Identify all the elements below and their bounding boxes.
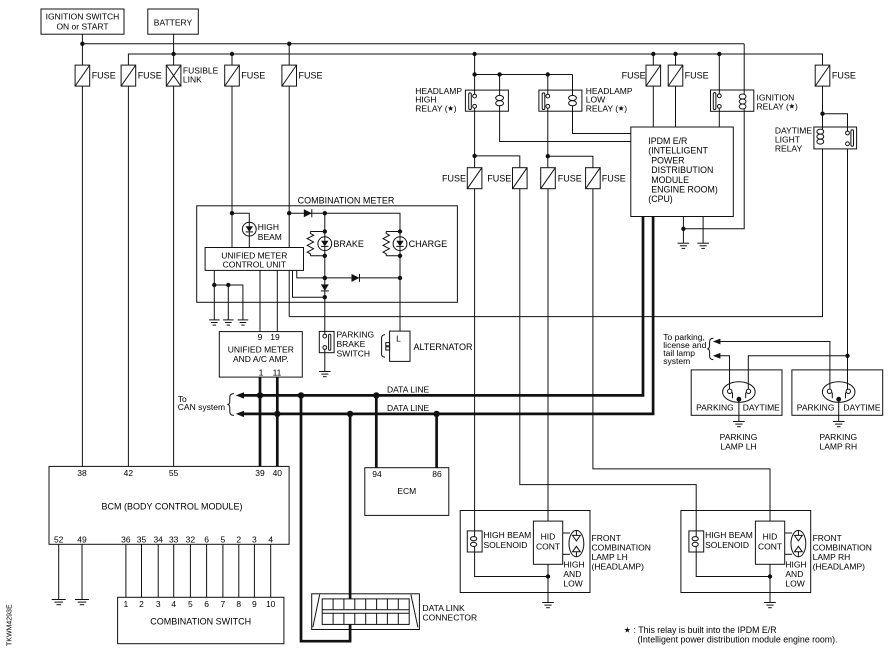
wire parking feed RH (line 1): [713, 339, 830, 390]
svg-text:FUSE: FUSE: [622, 71, 646, 81]
svg-text:5: 5: [221, 535, 226, 545]
svg-text:39: 39: [255, 468, 265, 478]
wire parking feed LH (line 2a): [713, 353, 730, 389]
wire ignition relay contact feed: [718, 54, 720, 94]
svg-text:UNIFIED METER: UNIFIED METER: [228, 345, 294, 355]
high beam solenoid RH: [689, 531, 704, 552]
svg-text:4: 4: [268, 535, 273, 545]
wires BCM to combination switch: [126, 544, 271, 597]
svg-text:DAYTIME: DAYTIME: [743, 403, 780, 413]
label data link connector: [423, 603, 478, 623]
svg-text:CONT: CONT: [758, 542, 782, 552]
svg-text:35: 35: [137, 535, 147, 545]
combination switch box: [118, 597, 284, 643]
svg-text:FRONT: FRONT: [813, 533, 842, 543]
label parking lamp LH: [720, 432, 758, 452]
wire F6 to IPDM: [652, 86, 654, 127]
ground BCM 49: [75, 600, 89, 605]
wire F12 to RH HID: [593, 189, 770, 521]
parking lamp RH box: [792, 370, 883, 415]
svg-text:BATTERY: BATTERY: [154, 18, 193, 28]
svg-text:LAMP LH: LAMP LH: [592, 552, 628, 562]
label to parking license tail lamp: [663, 332, 706, 366]
indicator HIGH BEAM lamp: [242, 222, 256, 236]
svg-text:DAYTIME: DAYTIME: [843, 403, 880, 413]
svg-text:5: 5: [188, 599, 193, 609]
wire bus B to fuse F7: [675, 54, 677, 65]
svg-text:COMBINATION METER: COMBINATION METER: [298, 195, 395, 205]
HID control unit RH: [755, 521, 784, 564]
svg-text:HIGH: HIGH: [785, 560, 806, 570]
svg-text:6: 6: [204, 535, 209, 545]
ground front lamp RH: [764, 603, 776, 608]
wire socket to ground RH: [838, 402, 840, 422]
svg-text:36: 36: [121, 535, 131, 545]
wire F8 to daytime relay: [820, 86, 847, 131]
labels parking daytime RH: [797, 403, 881, 413]
svg-text:2: 2: [236, 535, 241, 545]
svg-text:HIGH BEAM: HIGH BEAM: [705, 530, 753, 540]
wire UMCU output to diode rail: [297, 270, 400, 280]
ground meter 1: [209, 320, 220, 325]
wire ignition feed bus A: [80, 34, 744, 65]
svg-text:ENGINE ROOM): ENGINE ROOM): [651, 185, 718, 195]
svg-text:: This relay is built into the: : This relay is built into the IPDM E/R: [634, 625, 777, 635]
svg-text:(CPU): (CPU): [648, 194, 673, 204]
svg-text:34: 34: [153, 535, 163, 545]
svg-text:52: 52: [54, 535, 64, 545]
brace parking: [707, 338, 713, 359]
wire F4 to combination meter: [288, 86, 290, 247]
svg-text:FUSE: FUSE: [602, 174, 626, 184]
bulb socket parking lamp RH: [822, 382, 855, 403]
label front combination lamp LH: [592, 533, 651, 572]
contact of low relay: [542, 93, 549, 110]
label headlamp low relay: [586, 86, 633, 113]
svg-text:32: 32: [186, 535, 196, 545]
svg-text:3: 3: [252, 535, 257, 545]
wire bus A to F4: [288, 44, 290, 65]
unified meter and A/C amp box: [219, 332, 302, 378]
ground parking lamp RH: [833, 422, 845, 427]
wire F1 to BCM pin 38: [81, 86, 83, 466]
alternator box: [390, 331, 410, 361]
data link connector: [312, 594, 420, 630]
indicator BRAKE lamp: [318, 237, 332, 251]
headlamp bulb LH: [563, 530, 584, 556]
svg-text:94: 94: [372, 469, 382, 479]
svg-text:L: L: [396, 334, 401, 344]
label front combination lamp RH: [813, 533, 872, 572]
wire low relay coil to IPDM: [573, 106, 631, 134]
svg-text:FUSE: FUSE: [558, 174, 582, 184]
fuse F6: [646, 65, 661, 86]
wire meter top rail with diode: [289, 211, 400, 225]
indicator CHARGE lamp: [393, 237, 407, 251]
svg-text:19: 19: [270, 332, 280, 342]
svg-text:(HEADLAMP): (HEADLAMP): [592, 562, 645, 572]
svg-text:42: 42: [124, 468, 134, 478]
wire amp pin 1 to BCM 39: [259, 377, 262, 466]
fuse F7: [668, 65, 683, 86]
svg-text:HIGH: HIGH: [258, 222, 279, 232]
wire parking brake switch to ground: [324, 349, 326, 371]
svg-text:(HEADLAMP): (HEADLAMP): [813, 562, 866, 572]
wire data line 2: [236, 217, 653, 418]
svg-text:MODULE: MODULE: [651, 175, 689, 185]
ignition switch box: [41, 9, 124, 34]
wire BCM ground 52: [58, 544, 60, 599]
wire data line 2 to ECM 86: [435, 414, 438, 468]
svg-text:COMBINATION: COMBINATION: [592, 543, 651, 553]
front combination lamp LH box: [460, 511, 590, 593]
ground meter 2: [223, 320, 234, 325]
svg-text:DATA LINE: DATA LINE: [387, 384, 430, 394]
svg-text:LOW: LOW: [563, 579, 582, 589]
fuse F3: [225, 65, 240, 86]
svg-text:AND A/C AMP.: AND A/C AMP.: [233, 354, 289, 364]
relay ignition: [711, 90, 754, 111]
svg-text:AND: AND: [785, 569, 803, 579]
svg-text:IPDM E/R: IPDM E/R: [648, 136, 687, 146]
label high beam: [258, 222, 282, 242]
svg-text:DATA LINK: DATA LINK: [423, 603, 466, 613]
coil of daytime relay: [817, 129, 824, 144]
coil of low relay: [569, 95, 577, 105]
wire daytime relay contact to parking lamps: [845, 149, 849, 389]
fuse F1: [75, 65, 90, 86]
wire F9 to LH solenoid: [474, 189, 476, 531]
label to CAN system: [178, 394, 225, 412]
svg-text:RELAY (: RELAY (: [586, 103, 618, 113]
svg-text:FRONT: FRONT: [592, 533, 621, 543]
svg-text:FUSE: FUSE: [685, 71, 709, 81]
wire F11 to LH HID: [547, 189, 549, 521]
wire bus B to fuse F6: [652, 54, 654, 65]
svg-text:38: 38: [77, 468, 87, 478]
wire bus B to F3: [231, 54, 233, 65]
label parking brake switch: [337, 329, 375, 358]
svg-text:6: 6: [204, 599, 209, 609]
label high beam solenoid RH: [705, 530, 753, 550]
coil of high relay: [496, 95, 504, 105]
wire brake branch lower: [323, 251, 327, 285]
resistor R2: [383, 232, 389, 256]
wire F3 to combination meter: [231, 86, 233, 247]
parking lamp LH box: [691, 370, 782, 415]
ground IPDM 1: [678, 243, 690, 248]
svg-text:ECM: ECM: [397, 486, 416, 496]
fusible link FL: [166, 65, 181, 86]
wire F2 to BCM pin 42: [127, 86, 129, 466]
svg-text:(Intelligent power distributio: (Intelligent power distribution module e…: [638, 635, 838, 645]
coil of ignition relay: [739, 94, 746, 109]
ground front lamp LH: [542, 603, 554, 608]
wire solenoid to HID common RH: [696, 552, 772, 579]
relay daytime light: [814, 127, 857, 149]
svg-text:FUSE: FUSE: [299, 71, 323, 81]
ground IPDM 2: [697, 243, 709, 248]
svg-text:BRAKE: BRAKE: [337, 339, 366, 349]
footnote: [624, 625, 837, 645]
fuse F8: [815, 65, 830, 86]
wire IPDM ground pin 2: [702, 217, 704, 244]
wire ignition relay coil to ground: [683, 109, 744, 229]
svg-text:FUSE: FUSE: [832, 71, 856, 81]
wire socket to ground LH: [738, 402, 740, 422]
wire UMCU output to daytime relay coil: [288, 270, 290, 316]
label ignition relay: [757, 92, 799, 111]
svg-text:IGNITION SWITCH: IGNITION SWITCH: [46, 12, 120, 22]
svg-text:ALTERNATOR: ALTERNATOR: [414, 342, 474, 352]
svg-text:1: 1: [124, 599, 129, 609]
svg-text:CONTROL UNIT: CONTROL UNIT: [223, 259, 286, 269]
svg-text:COMBINATION: COMBINATION: [813, 543, 872, 553]
brace CAN: [227, 394, 233, 416]
fuse F2: [121, 65, 136, 86]
wire HID to ground RH: [769, 564, 771, 602]
svg-text:): ): [624, 103, 627, 113]
label headlamp high relay: [415, 86, 462, 113]
svg-text:PARKING: PARKING: [720, 432, 758, 442]
wire UMCU output to brake cathode: [293, 270, 325, 297]
combination meter box: [197, 195, 458, 302]
ground BCM 52: [52, 600, 66, 605]
wire IPDM ground pin 1: [681, 217, 685, 244]
svg-text:LAMP RH: LAMP RH: [819, 442, 857, 452]
svg-text:COMBINATION SWITCH: COMBINATION SWITCH: [150, 616, 251, 626]
svg-text:BCM (BODY CONTROL MODULE): BCM (BODY CONTROL MODULE): [101, 502, 242, 512]
svg-text:RELAY (: RELAY (: [415, 103, 447, 113]
svg-text:RELAY: RELAY: [775, 144, 803, 154]
label high and low LH: [563, 560, 584, 589]
svg-text:LINK: LINK: [183, 75, 202, 85]
high beam solenoid LH: [467, 531, 482, 552]
svg-text:(INTELLIGENT: (INTELLIGENT: [648, 146, 708, 156]
wire F7 to IPDM: [675, 86, 677, 127]
wire data line 1 to data link connector: [301, 395, 350, 641]
svg-text:LAMP RH: LAMP RH: [813, 552, 851, 562]
diode D3: [321, 284, 329, 291]
ground meter 3: [238, 320, 249, 325]
wire data line 1: [236, 217, 643, 399]
relay headlamp low: [539, 90, 582, 111]
svg-text:system: system: [663, 356, 690, 366]
fuse F4: [282, 65, 297, 86]
wire brake to switch: [323, 291, 327, 334]
svg-text:HID: HID: [763, 532, 778, 542]
svg-text:CAN system: CAN system: [178, 402, 225, 412]
unified meter control unit box: [205, 248, 303, 271]
svg-text:SOLENOID: SOLENOID: [484, 540, 528, 550]
wire solenoid to HID common LH: [475, 552, 551, 579]
fuse F11: [541, 168, 556, 189]
wire low relay output: [546, 108, 593, 168]
IPDM E/R box: [631, 127, 734, 217]
label high and low RH: [785, 560, 806, 589]
headlamp bulb RH: [785, 530, 806, 556]
wire charge branch: [386, 225, 402, 256]
svg-text:2: 2: [139, 599, 144, 609]
contact of high relay: [469, 93, 477, 110]
wire HID to ground LH: [547, 564, 549, 602]
contact of ignition relay: [713, 93, 721, 110]
relay headlamp high: [465, 90, 508, 111]
svg-text:PARKING: PARKING: [797, 403, 835, 413]
BCM body control module box: [49, 466, 289, 544]
svg-text:PARKING: PARKING: [819, 432, 857, 442]
svg-text:FUSE: FUSE: [92, 71, 116, 81]
svg-text:49: 49: [77, 535, 87, 545]
node meter feed junctions: [230, 211, 292, 215]
wire UMCU pin to amp pin 9: [259, 270, 261, 331]
svg-text:HIGH: HIGH: [563, 560, 584, 570]
svg-text:BRAKE: BRAKE: [333, 239, 364, 249]
resistor R1: [307, 232, 313, 256]
svg-text:11: 11: [273, 367, 282, 377]
bulb socket parking lamp LH: [723, 382, 756, 403]
battery box: [148, 9, 199, 34]
fuse F9: [467, 168, 482, 189]
svg-text:55: 55: [169, 468, 179, 478]
ground parking brake switch: [319, 372, 331, 377]
svg-text:86: 86: [432, 469, 442, 479]
svg-text:3: 3: [156, 599, 161, 609]
labels parking daytime LH: [696, 403, 780, 413]
svg-text:SWITCH: SWITCH: [337, 349, 371, 359]
svg-text:TKWM4293E: TKWM4293E: [7, 604, 14, 646]
diode D1: [304, 209, 312, 217]
svg-text:CONNECTOR: CONNECTOR: [423, 612, 478, 622]
svg-text:CONT: CONT: [536, 542, 560, 552]
wire daytime relay coil to meter (long): [289, 149, 822, 317]
svg-text:LOW: LOW: [785, 579, 804, 589]
svg-text:9: 9: [258, 332, 263, 342]
wire battery feed bus B: [128, 34, 822, 65]
wire amp pin 11 to BCM 40: [276, 377, 279, 466]
front combination lamp RH box: [681, 511, 811, 593]
svg-text:HIGH BEAM: HIGH BEAM: [484, 530, 532, 540]
svg-text:CHARGE: CHARGE: [409, 239, 448, 249]
label high beam solenoid LH: [484, 530, 532, 550]
wire UMCU ground pins: [212, 270, 243, 320]
label parking lamp RH: [819, 432, 857, 452]
fuse F12: [586, 168, 601, 189]
svg-text:DISTRIBUTION: DISTRIBUTION: [651, 165, 713, 175]
svg-text:FUSE: FUSE: [487, 174, 511, 184]
svg-text:PARKING: PARKING: [337, 329, 375, 339]
svg-text:ON or START: ON or START: [56, 22, 108, 32]
wire data line 1 to ECM 94: [375, 395, 378, 467]
svg-text:8: 8: [236, 599, 241, 609]
wire FL to BCM pin 55: [173, 86, 175, 466]
svg-text:7: 7: [221, 599, 226, 609]
svg-text:FUSE: FUSE: [241, 71, 265, 81]
svg-text:RELAY (: RELAY (: [757, 101, 789, 111]
svg-text:LAMP LH: LAMP LH: [720, 442, 756, 452]
wire daytime feed LH (line 2b): [748, 356, 847, 389]
label daytime light relay: [775, 126, 812, 154]
wire F10 to RH solenoid: [520, 189, 696, 531]
wire UMCU pin to amp pin 19: [276, 270, 278, 331]
wire high beam to UMCU: [248, 236, 250, 247]
svg-text:4: 4: [171, 599, 176, 609]
wire high relay output: [472, 108, 519, 168]
ECM box: [365, 468, 449, 516]
svg-text:FUSE: FUSE: [442, 174, 466, 184]
svg-text:33: 33: [169, 535, 179, 545]
svg-text:HID: HID: [541, 532, 556, 542]
svg-text:PARKING: PARKING: [696, 403, 734, 413]
connector at alternator: [382, 335, 390, 358]
parking brake switch: [319, 331, 334, 352]
svg-text:POWER: POWER: [651, 155, 684, 165]
wire brake branch: [323, 213, 327, 237]
wire charge branch lower: [398, 251, 402, 332]
contact of daytime relay: [846, 130, 854, 146]
svg-text:BEAM: BEAM: [258, 232, 282, 242]
resistor brake parallel: [310, 232, 324, 256]
wire high beam branch: [232, 213, 249, 222]
ground parking lamp LH: [733, 422, 745, 427]
svg-text:9: 9: [252, 599, 257, 609]
svg-text:40: 40: [273, 468, 283, 478]
svg-text:1: 1: [259, 367, 264, 377]
wire ignition relay coil feed: [743, 44, 745, 95]
HID control unit LH: [533, 521, 562, 564]
svg-text:10: 10: [266, 599, 276, 609]
fuse F10: [513, 168, 528, 189]
svg-text:SOLENOID: SOLENOID: [705, 540, 749, 550]
wire ignition relay contact to IPDM: [718, 108, 720, 127]
wire data line 2 to data link connector: [349, 414, 352, 599]
svg-text:): ): [795, 101, 798, 111]
svg-text:): ): [454, 103, 457, 113]
wire BCM ground 49: [81, 544, 83, 599]
wire relay feed node: [472, 54, 572, 96]
diode D2: [352, 274, 360, 282]
svg-text:FUSE: FUSE: [138, 71, 162, 81]
wire high relay coil to IPDM: [500, 106, 631, 142]
svg-text:DATA LINE: DATA LINE: [387, 403, 430, 413]
svg-text:AND: AND: [563, 569, 581, 579]
